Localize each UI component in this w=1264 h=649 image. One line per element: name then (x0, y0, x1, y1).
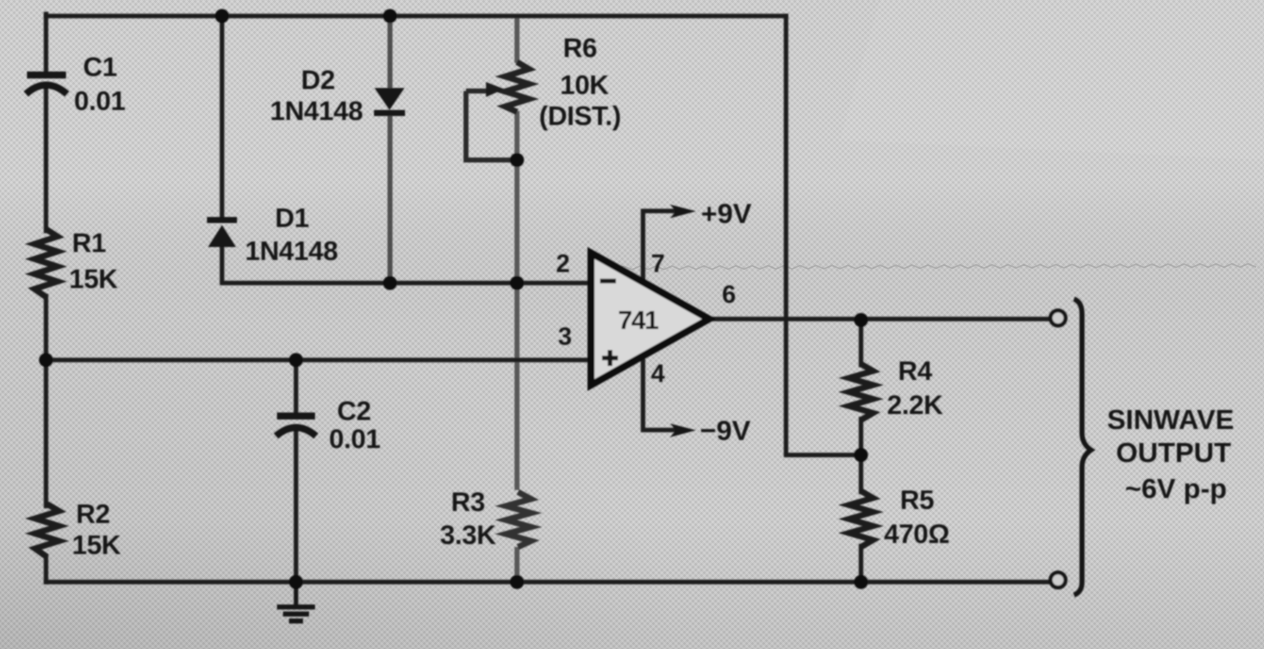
svg-text:0.01: 0.01 (329, 424, 381, 454)
svg-text:15K: 15K (69, 264, 118, 294)
svg-text:1N4148: 1N4148 (245, 236, 338, 266)
svg-text:2.2K: 2.2K (887, 390, 944, 420)
svg-text:(DIST.): (DIST.) (539, 101, 621, 131)
svg-text:3.3K: 3.3K (440, 520, 497, 550)
svg-text:C1: C1 (83, 52, 117, 82)
svg-text:R1: R1 (72, 228, 106, 258)
svg-text:~6V p-p: ~6V p-p (1125, 473, 1227, 504)
svg-text:SINWAVE: SINWAVE (1107, 404, 1234, 435)
svg-text:470Ω: 470Ω (884, 519, 950, 549)
svg-text:4: 4 (651, 360, 665, 388)
svg-text:−9V: −9V (700, 415, 751, 446)
svg-text:10K: 10K (560, 70, 609, 100)
svg-text:0.01: 0.01 (74, 86, 126, 116)
svg-text:741: 741 (618, 305, 659, 335)
svg-text:2: 2 (556, 250, 570, 278)
svg-text:D2: D2 (301, 65, 335, 95)
svg-text:1N4148: 1N4148 (270, 96, 363, 126)
svg-text:6: 6 (722, 281, 736, 309)
svg-text:7: 7 (651, 250, 665, 278)
svg-text:15K: 15K (72, 530, 121, 560)
svg-text:D1: D1 (275, 203, 309, 233)
svg-text:C2: C2 (337, 396, 371, 426)
svg-text:R4: R4 (898, 356, 932, 386)
svg-text:R3: R3 (451, 487, 485, 517)
svg-text:OUTPUT: OUTPUT (1116, 437, 1231, 468)
svg-text:+9V: +9V (701, 198, 752, 229)
svg-text:R5: R5 (900, 485, 934, 515)
svg-text:R6: R6 (563, 33, 597, 63)
svg-text:3: 3 (558, 323, 572, 351)
svg-text:R2: R2 (76, 499, 110, 529)
